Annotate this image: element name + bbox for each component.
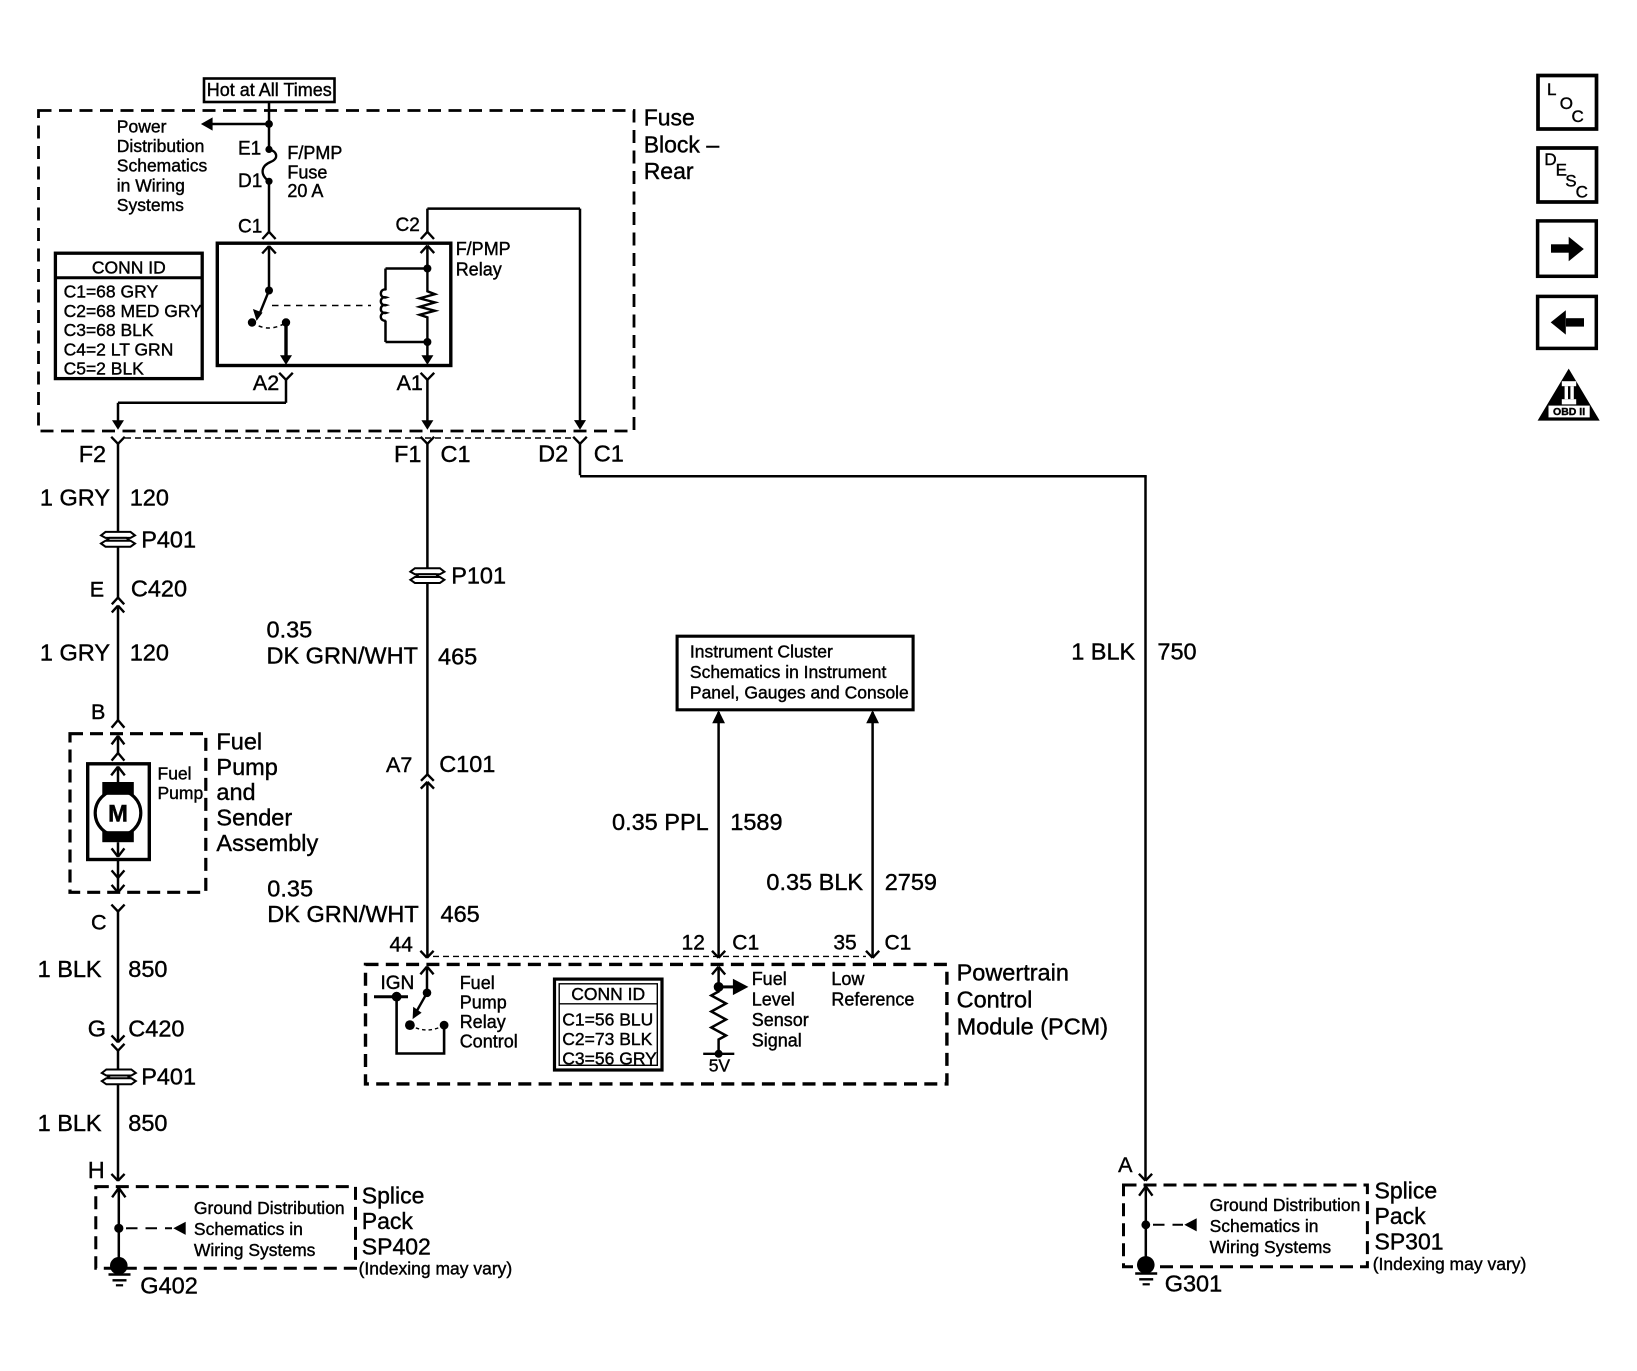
svg-text:Distribution: Distribution	[117, 136, 205, 156]
svg-text:DK GRN/WHT: DK GRN/WHT	[267, 901, 418, 927]
svg-text:Wiring Systems: Wiring Systems	[194, 1240, 316, 1260]
svg-text:Panel, Gauges and Console: Panel, Gauges and Console	[690, 683, 909, 703]
svg-text:C2: C2	[396, 215, 420, 236]
svg-text:Pump: Pump	[158, 783, 204, 803]
svg-text:IGN: IGN	[381, 973, 415, 994]
svg-text:Reference: Reference	[831, 989, 914, 1009]
svg-text:C2=73 BLK: C2=73 BLK	[562, 1029, 652, 1049]
svg-text:Schematics in Instrument: Schematics in Instrument	[690, 662, 887, 682]
svg-text:H: H	[88, 1157, 105, 1183]
svg-text:Control: Control	[957, 987, 1033, 1013]
svg-text:Level: Level	[752, 990, 795, 1010]
svg-text:Block –: Block –	[644, 132, 720, 158]
svg-text:in Wiring: in Wiring	[117, 175, 185, 195]
svg-text:C3=68 BLK: C3=68 BLK	[64, 320, 154, 340]
svg-text:Hot at All Times: Hot at All Times	[207, 80, 332, 100]
svg-text:Ground Distribution: Ground Distribution	[1210, 1195, 1361, 1215]
svg-text:L: L	[1547, 80, 1556, 99]
svg-text:C1: C1	[594, 441, 624, 467]
svg-text:44: 44	[389, 933, 413, 956]
svg-text:850: 850	[128, 956, 167, 982]
svg-text:C1: C1	[885, 931, 912, 954]
svg-text:Fuse: Fuse	[644, 105, 695, 131]
svg-text:Splice: Splice	[1375, 1178, 1438, 1204]
svg-text:A2: A2	[253, 371, 279, 395]
svg-text:Assembly: Assembly	[216, 830, 318, 856]
svg-text:P401: P401	[141, 1064, 196, 1090]
svg-text:0.35: 0.35	[267, 875, 313, 901]
svg-text:SP402: SP402	[362, 1233, 431, 1259]
svg-text:850: 850	[128, 1110, 167, 1136]
svg-text:Relay: Relay	[460, 1012, 506, 1032]
svg-text:Signal: Signal	[752, 1030, 802, 1050]
svg-text:A7: A7	[386, 753, 412, 777]
svg-text:Schematics: Schematics	[117, 156, 208, 176]
svg-text:35: 35	[833, 931, 856, 954]
svg-text:C101: C101	[439, 751, 495, 777]
svg-text:C1: C1	[238, 217, 262, 238]
svg-text:CONN ID: CONN ID	[92, 257, 166, 277]
svg-text:CONN ID: CONN ID	[571, 984, 645, 1004]
svg-text:Relay: Relay	[456, 260, 502, 280]
svg-text:C4=2 LT GRN: C4=2 LT GRN	[64, 339, 174, 359]
svg-text:0.35 BLK: 0.35 BLK	[766, 869, 863, 895]
svg-text:750: 750	[1157, 639, 1196, 665]
svg-text:and: and	[216, 779, 255, 805]
svg-text:Splice: Splice	[362, 1183, 425, 1209]
svg-text:P401: P401	[141, 527, 196, 553]
svg-text:C: C	[1572, 107, 1584, 126]
svg-text:Control: Control	[460, 1031, 518, 1051]
svg-text:1589: 1589	[730, 809, 782, 835]
svg-text:Fuel: Fuel	[752, 969, 787, 989]
svg-text:F2: F2	[79, 441, 106, 467]
svg-text:C2=68 MED GRY: C2=68 MED GRY	[64, 301, 203, 321]
svg-text:F/PMP: F/PMP	[287, 143, 342, 163]
svg-text:Module (PCM): Module (PCM)	[957, 1014, 1108, 1040]
svg-text:1 BLK: 1 BLK	[38, 1110, 102, 1136]
svg-text:Rear: Rear	[644, 158, 694, 184]
svg-text:(Indexing may vary): (Indexing may vary)	[1373, 1254, 1527, 1274]
svg-text:1 BLK: 1 BLK	[38, 956, 102, 982]
svg-text:Pump: Pump	[460, 992, 507, 1012]
svg-text:A: A	[1118, 1153, 1133, 1177]
svg-text:C1=56 BLU: C1=56 BLU	[562, 1009, 653, 1029]
svg-text:0.35: 0.35	[267, 616, 313, 642]
svg-text:Wiring Systems: Wiring Systems	[1210, 1237, 1332, 1257]
svg-text:2759: 2759	[885, 869, 937, 895]
svg-text:C: C	[1576, 182, 1588, 201]
svg-text:M: M	[108, 801, 128, 828]
svg-text:Powertrain: Powertrain	[957, 960, 1069, 986]
svg-text:Pack: Pack	[362, 1208, 414, 1234]
svg-text:C5=2 BLK: C5=2 BLK	[64, 359, 145, 379]
svg-text:C1: C1	[441, 441, 471, 467]
svg-text:Instrument Cluster: Instrument Cluster	[690, 641, 833, 661]
svg-text:C420: C420	[128, 1016, 184, 1042]
svg-text:12: 12	[682, 931, 705, 954]
svg-text:5V: 5V	[709, 1056, 731, 1076]
svg-text:20 A: 20 A	[287, 181, 323, 201]
svg-text:Fuse: Fuse	[287, 162, 327, 182]
svg-text:A1: A1	[397, 371, 423, 395]
svg-text:C3=56 GRY: C3=56 GRY	[562, 1049, 657, 1069]
svg-text:C1: C1	[732, 931, 759, 954]
svg-text:Sender: Sender	[216, 805, 292, 831]
svg-text:Pack: Pack	[1375, 1203, 1427, 1229]
svg-text:Fuel: Fuel	[460, 973, 495, 993]
svg-text:120: 120	[130, 485, 169, 511]
svg-text:Ground Distribution: Ground Distribution	[194, 1198, 345, 1218]
svg-text:B: B	[91, 700, 105, 724]
svg-text:D1: D1	[238, 171, 262, 192]
svg-text:Sensor: Sensor	[752, 1010, 809, 1030]
svg-text:SP301: SP301	[1375, 1228, 1444, 1254]
svg-text:(Indexing may vary): (Indexing may vary)	[359, 1258, 513, 1278]
svg-text:P101: P101	[451, 563, 506, 589]
svg-text:E: E	[90, 578, 104, 602]
svg-text:Schematics in: Schematics in	[1210, 1216, 1319, 1236]
svg-text:Pump: Pump	[216, 754, 277, 780]
svg-text:G402: G402	[140, 1273, 198, 1299]
svg-text:G: G	[88, 1016, 106, 1042]
svg-text:Low: Low	[831, 969, 865, 989]
svg-text:0.35 PPL: 0.35 PPL	[612, 809, 709, 835]
svg-text:OBD II: OBD II	[1553, 406, 1585, 418]
svg-text:1 GRY: 1 GRY	[40, 640, 110, 666]
svg-text:120: 120	[130, 640, 169, 666]
svg-text:C: C	[91, 911, 107, 935]
svg-text:Fuel: Fuel	[216, 729, 262, 755]
svg-text:1 GRY: 1 GRY	[40, 485, 110, 511]
svg-text:Fuel: Fuel	[158, 763, 192, 783]
svg-text:C420: C420	[131, 576, 187, 602]
svg-text:1 BLK: 1 BLK	[1071, 639, 1135, 665]
svg-text:Systems: Systems	[117, 195, 184, 215]
svg-text:Schematics in: Schematics in	[194, 1219, 303, 1239]
svg-text:E1: E1	[238, 139, 261, 160]
svg-text:F/PMP: F/PMP	[456, 239, 511, 259]
svg-text:465: 465	[438, 643, 477, 669]
svg-text:F1: F1	[394, 441, 421, 467]
svg-text:C1=68 GRY: C1=68 GRY	[64, 282, 159, 302]
svg-text:G301: G301	[1165, 1271, 1223, 1297]
svg-text:D2: D2	[538, 441, 568, 467]
svg-text:DK GRN/WHT: DK GRN/WHT	[267, 642, 418, 668]
svg-text:465: 465	[441, 901, 480, 927]
svg-text:Power: Power	[117, 116, 167, 136]
